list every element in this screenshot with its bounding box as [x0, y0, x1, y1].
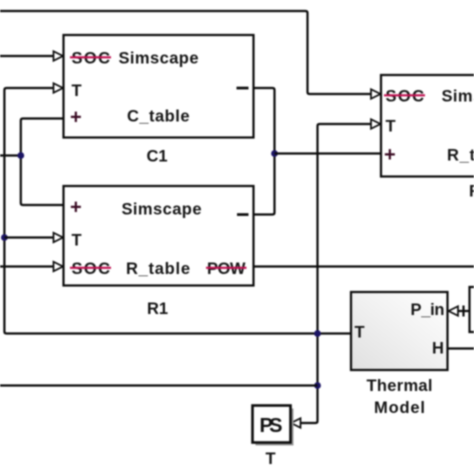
svg-text:C1: C1 [147, 148, 168, 166]
svg-text:P_in: P_in [411, 301, 445, 319]
block RB (right R_table, clipped) [381, 75, 474, 177]
node + junction [17, 152, 24, 159]
svg-text:H: H [432, 340, 444, 358]
port label P_in of Thermal Model [411, 301, 445, 319]
port label minus of R1 [237, 213, 249, 216]
port label SOC of R1 [72, 260, 111, 278]
port label T of C1 [72, 82, 82, 100]
svg-text:+: + [384, 144, 396, 166]
block PS (Simulink-PS converter) shadow [256, 409, 294, 446]
label R of RB (clipped) [469, 183, 474, 201]
arrowhead C1 T input [54, 83, 64, 93]
port label + of R1 [70, 197, 82, 219]
text R_table in RB (clipped) [447, 147, 474, 165]
port label H of Thermal Model [432, 340, 444, 358]
arrowhead R1 T input [54, 233, 64, 243]
port label T of R1 [72, 232, 82, 250]
svg-text:Simscape: Simscape [442, 88, 474, 106]
wire SOC bus top to RB SOC input [0, 11, 372, 94]
port label SOC of C1 [72, 50, 111, 68]
svg-text:SOC: SOC [72, 50, 111, 68]
arrowhead RB T input [371, 119, 381, 129]
wire minus net: C1 minus down to R1 minus [254, 88, 275, 215]
svg-text:+: + [70, 107, 82, 129]
svg-text:T: T [266, 450, 276, 468]
wire + terminal stub from left edge [0, 154, 21, 156]
port label POW of R1 [207, 260, 246, 278]
block Thermal Model [351, 292, 448, 370]
svg-text:T: T [355, 324, 365, 342]
svg-text:POW: POW [207, 260, 246, 278]
svg-text:PS: PS [260, 415, 283, 437]
block PS [253, 406, 291, 443]
node T junction at thermal line [314, 330, 321, 337]
strike through SOC of C1 [70, 56, 111, 58]
text Simscape in R1 [122, 201, 202, 219]
strike through POW of R1 [206, 267, 247, 269]
svg-text:Simscape: Simscape [122, 201, 202, 219]
port label T of RB [386, 118, 396, 136]
node minus junction [271, 150, 278, 157]
port label minus of C1 [237, 87, 249, 90]
svg-text:Model: Model [374, 399, 425, 417]
wire SOC input to C1 [0, 55, 55, 57]
label Model [374, 399, 425, 417]
svg-text:T: T [72, 82, 82, 100]
tick on P_in wire [462, 306, 464, 317]
text PS [260, 415, 283, 437]
strike through SOC of R1 [70, 267, 111, 269]
svg-text:R: R [469, 183, 474, 201]
label R1 [147, 300, 168, 318]
port label + of C1 [70, 107, 82, 129]
svg-text:C_table: C_table [127, 108, 190, 126]
wire T bottom line from left edge [0, 384, 318, 386]
strike through SOC of RB [384, 94, 425, 96]
wire T net: C1 T down left side to Thermal Model T [4, 88, 350, 334]
port label SOC of RB [386, 88, 425, 106]
node T junction at bottom line [314, 382, 321, 389]
label Thermal [367, 377, 433, 395]
block R1 (R_table) [64, 186, 254, 286]
text C_table in C1 [127, 108, 190, 126]
wire T net vertical: RB T input down to PS [301, 124, 372, 423]
wire R1 SOC input from left edge [0, 265, 55, 267]
wire H output of Thermal Model [448, 347, 474, 349]
arrowhead R1 SOC input [54, 262, 64, 272]
svg-text:SOC: SOC [386, 88, 425, 106]
svg-text:R_table: R_table [126, 260, 190, 278]
svg-text:+: + [70, 197, 82, 219]
arrowhead PS input (points left) [291, 418, 301, 428]
port label T of Thermal Model [355, 324, 365, 342]
label C1 [147, 148, 168, 166]
block small (clipped, right edge) [470, 287, 474, 332]
arrowhead RB SOC input [371, 89, 381, 99]
node T junction to R1 [1, 234, 8, 241]
svg-text:R1: R1 [147, 300, 168, 318]
wire minus node to RB + input [275, 152, 382, 154]
svg-text:SOC: SOC [72, 260, 111, 278]
wire POW output of R1 to right edge [254, 265, 474, 267]
wire P_in from small block [458, 310, 470, 312]
port label + of RB [384, 144, 396, 166]
text Simscape in C1 [119, 50, 199, 68]
svg-text:T: T [386, 118, 396, 136]
svg-text:T: T [72, 232, 82, 250]
arrowhead Thermal P_in input (points left) [449, 306, 459, 316]
block C1 (C_table) [64, 35, 254, 138]
svg-text:Simscape: Simscape [119, 50, 199, 68]
text R_table in R1 [126, 260, 190, 278]
text Simscape in RB (clipped) [442, 88, 474, 106]
arrowhead C1 SOC input [54, 51, 64, 61]
wire R1 T input [4, 236, 54, 238]
wire + net: C1 + to R1 + [21, 119, 64, 206]
svg-text:Thermal: Thermal [367, 377, 433, 395]
svg-text:R_table: R_table [447, 147, 474, 165]
label T under PS [266, 450, 276, 468]
